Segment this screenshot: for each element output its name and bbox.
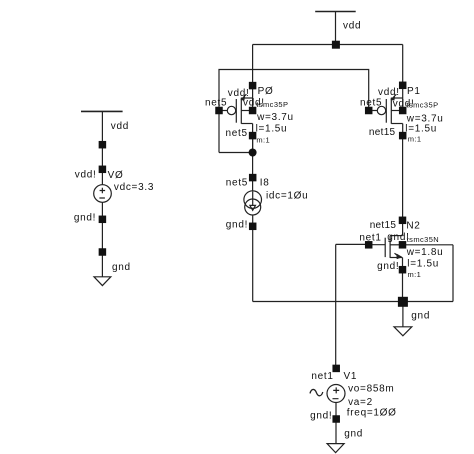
svg-text:l=1.5u: l=1.5u [407, 258, 439, 269]
svg-text:gnd: gnd [112, 262, 131, 273]
svg-text:gnd!: gnd! [310, 411, 332, 422]
svg-text:w=1.8u: w=1.8u [406, 247, 444, 258]
svg-text:PØ: PØ [258, 86, 274, 97]
svg-text:m:1: m:1 [256, 135, 270, 144]
svg-text:net5: net5 [205, 98, 227, 109]
svg-text:net5: net5 [226, 177, 248, 188]
svg-text:net1: net1 [311, 371, 333, 382]
svg-text:freq=1ØØ: freq=1ØØ [347, 408, 397, 419]
svg-text:N2: N2 [406, 221, 420, 232]
svg-text:net1: net1 [359, 232, 381, 243]
svg-text:vdd: vdd [343, 21, 361, 32]
svg-text:V1: V1 [344, 371, 358, 382]
svg-text:vo=858m: vo=858m [348, 384, 394, 395]
svg-text:P1: P1 [407, 86, 421, 97]
svg-text:gnd!: gnd! [377, 261, 399, 272]
svg-text:net5: net5 [360, 97, 382, 108]
svg-text:vdd: vdd [111, 121, 129, 132]
svg-text:net15: net15 [370, 220, 397, 231]
svg-text:VØ: VØ [108, 170, 124, 181]
svg-text:l=1.5u: l=1.5u [256, 123, 288, 134]
svg-text:idc=1Øu: idc=1Øu [266, 190, 308, 201]
svg-text:net5: net5 [226, 128, 248, 139]
svg-text:tsmc35P: tsmc35P [407, 100, 439, 109]
svg-text:vdd!: vdd! [75, 169, 97, 180]
svg-text:w=3.7u: w=3.7u [256, 112, 294, 123]
svg-text:gnd: gnd [411, 311, 430, 322]
svg-text:tsmc35P: tsmc35P [256, 100, 288, 109]
svg-text:m:1: m:1 [408, 134, 422, 143]
svg-text:va=2: va=2 [348, 397, 373, 408]
svg-text:m:1: m:1 [408, 270, 422, 279]
svg-text:I8: I8 [260, 177, 270, 188]
svg-text:tsmc35N: tsmc35N [407, 235, 439, 244]
svg-text:gnd!: gnd! [226, 220, 248, 231]
svg-text:vdc=3.3: vdc=3.3 [114, 182, 154, 193]
svg-text:gnd!: gnd! [74, 212, 96, 223]
svg-text:net15: net15 [369, 127, 396, 138]
svg-text:l=1.5u: l=1.5u [405, 123, 437, 134]
svg-text:gnd: gnd [344, 429, 363, 440]
